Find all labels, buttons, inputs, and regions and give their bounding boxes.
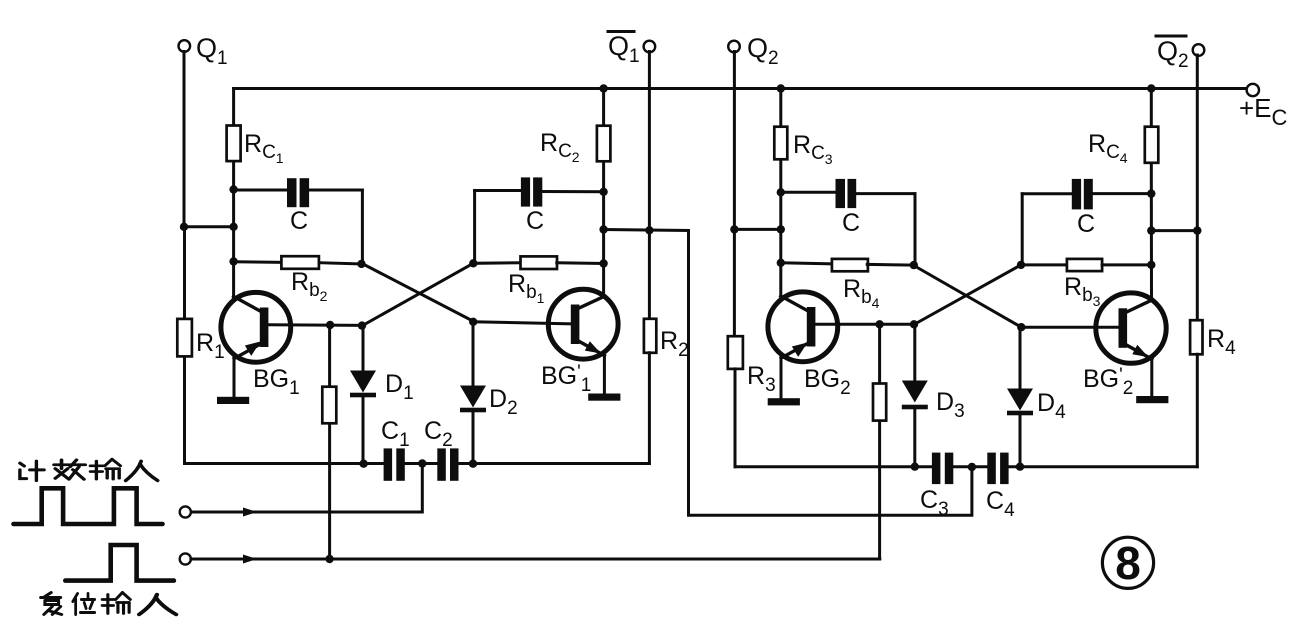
svg-text:D3: D3 — [936, 388, 965, 422]
+Ec supply bus — [234, 87, 1249, 90]
wire Q2-bar vertical down through bus to R4 — [1196, 55, 1199, 320]
cross-couple diagonal A2 (Rb4 right to BG2' base) — [914, 266, 1022, 328]
node: D1 to rail — [359, 460, 367, 468]
svg-text:RC1: RC1 — [244, 130, 284, 166]
svg-text:RC2: RC2 — [540, 129, 580, 165]
label count input (Chinese) — [20, 459, 158, 480]
wire stage2 bottom rail — [735, 465, 1197, 468]
resistor bias stage2 (unlabeled) — [873, 384, 886, 421]
capacitor C3 — [920, 453, 953, 520]
resistor RC3 — [774, 127, 832, 167]
resistor Rb4 — [781, 259, 914, 311]
wire bias resistor column stage2 — [878, 324, 881, 559]
wire Q1-bar vertical down through bus to R2 line — [648, 52, 651, 319]
node: Rb1 right on collector column — [599, 259, 607, 267]
svg-text:+EC: +EC — [1239, 93, 1288, 130]
svg-text:R3: R3 — [747, 362, 776, 396]
capacitor C2 — [424, 417, 459, 481]
node: Q1 tie — [180, 223, 238, 231]
wire collector column BG2 — [779, 89, 782, 298]
svg-text:C: C — [1077, 210, 1095, 238]
svg-text:D4: D4 — [1037, 389, 1066, 423]
cross-couple diagonal B2 (BG2 base to Rb3 left) — [914, 265, 1021, 325]
capacitor C (speedup, stage1 right) — [475, 177, 604, 263]
wire Q2 to collector column — [734, 228, 780, 231]
capacitor C (speedup, stage2 left) — [781, 179, 915, 265]
wire BG2' base — [1021, 326, 1118, 329]
svg-text:C: C — [290, 207, 308, 235]
svg-text:C1: C1 — [381, 417, 410, 451]
node: BG2' base / D4 top — [1017, 323, 1025, 331]
resistor R2 — [644, 319, 689, 361]
svg-text:Rb3: Rb3 — [1064, 273, 1101, 309]
wire BG2' emitter to ground — [1150, 358, 1153, 397]
arrowhead count input — [243, 508, 257, 517]
transistor BG1 — [221, 292, 300, 399]
svg-text:Q2: Q2 — [747, 33, 779, 69]
cross-couple diagonal B1 (BG1 base to Rb1 left) — [362, 263, 473, 326]
ground BG2' — [1136, 396, 1168, 403]
resistor Rb1 — [473, 256, 603, 306]
svg-text:R2: R2 — [660, 327, 689, 361]
wire BG1' emitter to ground — [603, 355, 606, 395]
node: BG1' base / D2 top — [469, 318, 477, 326]
arrowhead reset input — [243, 555, 257, 564]
terminal Q2-bar — [1156, 36, 1204, 72]
node: RC4 bottom / cap junction — [1147, 189, 1155, 197]
node: base junction to bias resistor stage2 — [875, 320, 883, 328]
node: trigger tap between C3 C4 — [968, 463, 976, 471]
svg-text:C4: C4 — [986, 487, 1015, 521]
terminal +Ec — [1239, 84, 1288, 130]
wire count input riser — [191, 464, 422, 513]
resistor RC1 — [227, 126, 284, 167]
node: Rb4 right / cross-couple A2 — [910, 261, 918, 269]
ground BG1' — [588, 394, 620, 401]
wire collector column BG2' — [1150, 89, 1153, 301]
wire R2 bottom to rail corner — [648, 353, 651, 464]
svg-text:8: 8 — [1115, 537, 1141, 589]
svg-text:Rb4: Rb4 — [843, 275, 880, 311]
wire Q2 vertical down through bus to R3 — [733, 52, 736, 337]
diode D4 — [1007, 327, 1066, 467]
node: Rb2 right / cross-couple A1 — [357, 260, 365, 268]
resistor Rb2 — [234, 256, 362, 304]
terminal Q1 — [179, 33, 228, 69]
svg-text:BG1: BG1 — [253, 365, 300, 399]
svg-text:Q1: Q1 — [196, 33, 228, 69]
wire R3 bottom to stage2 rail corner — [734, 369, 737, 467]
svg-text:BG'1: BG'1 — [541, 362, 591, 396]
node: D4 to rail — [1016, 463, 1024, 471]
node: base junction to D3 / cross-couple B2 — [910, 320, 918, 328]
node: reset to stage1 bias resistor — [325, 555, 333, 563]
svg-text:Q2: Q2 — [1157, 36, 1189, 72]
node: base junction to bias resistor — [326, 321, 334, 329]
wire BG2 base — [815, 323, 914, 326]
wire R4 bottom to rail corner — [1196, 354, 1199, 466]
wire bias resistor column stage1 — [328, 325, 331, 559]
node: bus to RC2 — [599, 84, 607, 92]
node: D2 to rail — [469, 460, 477, 468]
wire carry Q1bar to stage2 trigger — [689, 231, 972, 516]
node: Rb2 left — [229, 257, 237, 265]
waveform count pulses — [14, 488, 163, 524]
svg-text:C2: C2 — [424, 417, 453, 451]
node: Rb3 right on collector column — [1147, 261, 1155, 269]
resistor Rb3 — [1021, 259, 1151, 309]
svg-text:Q1: Q1 — [608, 31, 640, 67]
wire BG2' collector to Q2-bar — [1151, 229, 1197, 232]
capacitor C (speedup, stage1 left) — [234, 178, 363, 264]
wire collector column BG1' — [602, 89, 605, 298]
ground BG1 — [217, 397, 249, 404]
svg-text:D2: D2 — [489, 385, 518, 419]
svg-text:BG'2: BG'2 — [1083, 365, 1133, 399]
node: bus to RC3 — [777, 84, 785, 92]
diode D2 — [460, 322, 518, 464]
wire stage1 bottom rail — [185, 462, 650, 465]
svg-text:C: C — [526, 207, 544, 235]
terminal Q1-bar — [608, 31, 655, 67]
node: RC3 bottom / cap junction — [777, 188, 785, 196]
wire BG1 base — [268, 323, 362, 327]
resistor R1 — [177, 319, 224, 363]
label reset input (Chinese) — [41, 593, 176, 615]
svg-text:Rb1: Rb1 — [508, 270, 545, 306]
terminal count input — [180, 506, 191, 517]
resistor RC4 — [1088, 127, 1158, 166]
node: count trigger tap between C1 C2 — [418, 459, 426, 467]
wire BG2 emitter to ground — [780, 357, 783, 399]
svg-text:R4: R4 — [1207, 325, 1236, 359]
node: base junction to D1 / cross-couple B1 — [358, 321, 366, 329]
wire Q1 to collector column — [184, 225, 234, 228]
svg-text:RC3: RC3 — [793, 131, 833, 167]
transistor BG1' — [541, 289, 618, 396]
ground BG2 — [768, 398, 800, 405]
diode D3 — [902, 324, 965, 466]
node: D3 to rail — [911, 463, 919, 471]
figure number 8 — [1102, 537, 1153, 589]
svg-text:BG2: BG2 — [804, 365, 851, 399]
capacitor C (speedup, stage2 right) — [1022, 179, 1151, 265]
waveform reset pulse — [65, 545, 174, 581]
node: RC1 bottom / cap C junction — [229, 185, 237, 193]
wire BG1 emitter to ground — [233, 358, 236, 398]
node: RC2 bottom / cap junction — [599, 188, 607, 196]
svg-text:C: C — [842, 209, 860, 237]
wire BG1' base — [473, 322, 571, 324]
node: Q1-bar tie on RC2 column — [599, 225, 653, 234]
resistor R4 — [1190, 320, 1236, 359]
transistor BG2 — [768, 292, 851, 399]
wire BG1' collector to Q1-bar and carry corner — [604, 230, 689, 231]
node: bus to RC4 — [1147, 84, 1155, 92]
svg-text:Rb2: Rb2 — [291, 268, 328, 304]
node: Rb3 left / cross-couple — [1017, 261, 1025, 269]
capacitor C4 — [986, 453, 1015, 521]
resistor R3 — [728, 336, 776, 396]
svg-text:RC4: RC4 — [1088, 130, 1128, 166]
svg-text:D1: D1 — [385, 370, 414, 404]
wire reset line — [191, 558, 880, 561]
transistor BG2' — [1083, 293, 1166, 399]
capacitor C1 — [381, 417, 410, 481]
node: Rb4 left — [777, 259, 785, 267]
terminal Q2 — [728, 33, 778, 69]
node: Q2-bar tie on RC4 column — [1147, 226, 1201, 234]
resistor bias stage1 (unlabeled) — [322, 387, 336, 424]
node: Rb1 left / cross-couple — [469, 259, 477, 267]
cross-couple diagonal A1 (Rb2 right to BG1' base) — [362, 264, 473, 322]
node: Q2 tie — [730, 225, 785, 233]
wire R1 column — [183, 227, 186, 464]
wire collector column BG1 — [232, 89, 235, 298]
wire Q1 vertical — [183, 52, 186, 228]
diode D1 — [350, 326, 414, 464]
resistor RC2 — [540, 126, 610, 165]
terminal reset input — [180, 553, 191, 564]
